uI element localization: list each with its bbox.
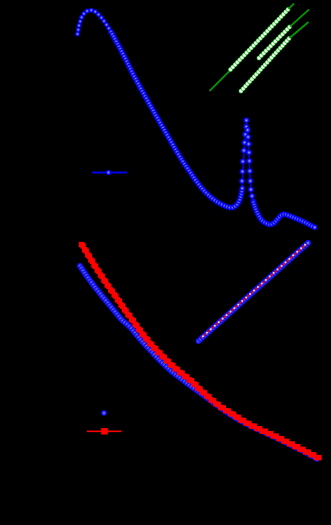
green series A short trailing line xyxy=(289,4,295,10)
green series C trailing line xyxy=(290,22,309,38)
bottom-panel legend marker: red line with square xyxy=(87,428,122,435)
spike connecting line of sharp peak, top panel xyxy=(242,121,253,203)
green series B trailing line xyxy=(290,10,309,27)
blue data curve, bottom panel xyxy=(77,263,320,462)
blue curve tail after sharp peak, top panel xyxy=(251,200,318,231)
green series A dotted chain xyxy=(228,7,290,72)
sharp-peak data dots, top panel xyxy=(239,117,256,204)
blue data curve, top panel (rho vs T with peak) xyxy=(75,8,245,211)
green series C dotted chain xyxy=(239,36,292,93)
green series B dotted chain xyxy=(257,25,292,61)
top-panel legend marker: blue line with centered dot xyxy=(92,170,127,176)
green series A lead-in line xyxy=(210,70,232,92)
bottom-panel legend marker: blue dot xyxy=(101,410,107,416)
red data curve (square markers), bottom panel xyxy=(79,242,322,461)
diagonal fit line with blue circle markers, bottom panel xyxy=(195,240,311,344)
